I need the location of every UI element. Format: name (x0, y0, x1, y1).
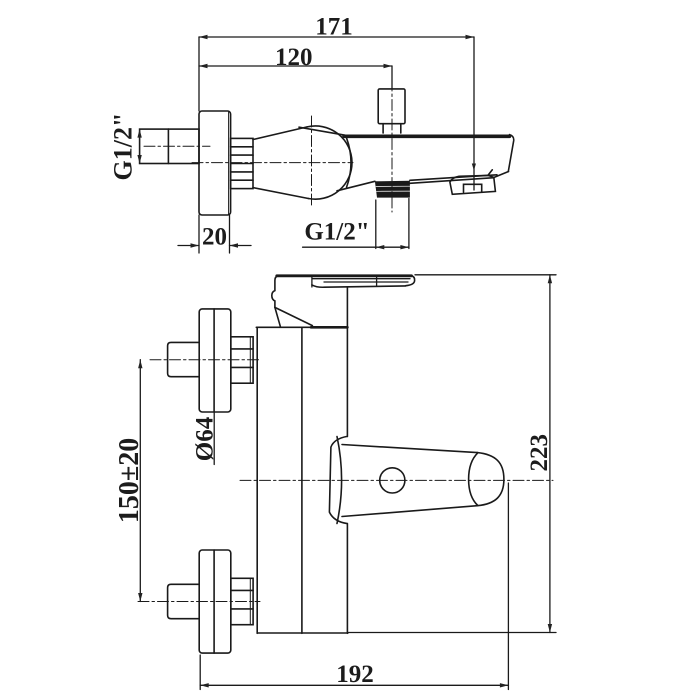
dimension 192 extensions (199, 655, 201, 690)
spout front left edge (272, 276, 278, 308)
upper mount flange (199, 309, 231, 412)
svg-text:192: 192 (336, 661, 374, 688)
Ø64 leader line (213, 412, 215, 465)
svg-text:G1/2": G1/2" (304, 219, 369, 246)
body right end cap (508, 135, 513, 172)
svg-text:Ø64: Ø64 (192, 416, 219, 461)
body bottom line (257, 632, 348, 634)
svg-text:150±20: 150±20 (114, 438, 145, 523)
thread dimension line + underline (303, 245, 409, 249)
small arrow on extension at spout underside (472, 164, 476, 171)
inlet pipe (side) (140, 129, 199, 163)
ball joint centerline vertical (311, 116, 313, 208)
knob centerline (391, 80, 393, 212)
lower mount centerline (138, 601, 260, 603)
extension line 171 right (spout end) (473, 37, 475, 190)
wall plate (side) (199, 111, 231, 215)
svg-text:223: 223 (526, 434, 553, 472)
body bottom edge right (410, 175, 497, 184)
handle base (329, 436, 347, 523)
223 bottom extension (348, 632, 556, 634)
diverter knob stem (383, 124, 401, 133)
cone to ball joint (253, 127, 308, 199)
aerator-body edge (488, 170, 492, 176)
svg-text:G1/2": G1/2" (109, 113, 138, 181)
lower mount pipe (168, 584, 200, 618)
dimension 150±20 (138, 360, 142, 602)
body top thick segment (311, 326, 347, 329)
dimension 223 (548, 275, 552, 633)
diverter knob (378, 89, 405, 124)
lever top edge (342, 445, 477, 453)
ball joint (egg) (307, 126, 352, 199)
neck diagonal (275, 307, 313, 325)
G1/2 diameter arrows (137, 129, 141, 163)
main axis centerline (192, 162, 353, 164)
svg-text:20: 20 (202, 224, 227, 251)
body column right edge upper (346, 287, 348, 437)
body top band thick (344, 135, 510, 139)
lower mount nut (231, 578, 253, 624)
body top edge thin (299, 127, 345, 135)
spout front top edge thick (277, 274, 412, 277)
dimension 20 line + arrows (178, 243, 251, 247)
inlet pipe centerline (144, 145, 210, 147)
lever bottom edge (342, 506, 477, 517)
neck steep edge (275, 307, 281, 326)
aerator block (450, 175, 496, 194)
inlet pipe divider (167, 129, 169, 163)
upper mount pipe (168, 342, 200, 376)
body top line (256, 326, 347, 328)
lower mount flange seam (213, 550, 215, 653)
ball-body junction arc (347, 138, 352, 188)
body bottom edge left (337, 181, 375, 191)
upper mount centerline (150, 359, 260, 361)
body column middle line (301, 327, 303, 633)
dimension 192 (200, 683, 508, 687)
lower mount flange (199, 550, 231, 653)
lever end cap inner arc (469, 453, 478, 506)
thread dimension extensions (375, 200, 377, 249)
handle centerline (240, 479, 553, 481)
dimension 20 extensions (198, 215, 200, 253)
wall plate inner edge (228, 112, 230, 215)
extension line left (wall plate) (198, 37, 200, 111)
threaded outlet (dark) (375, 181, 410, 198)
223 top extension (415, 274, 556, 276)
dimension 171 line (199, 35, 474, 39)
body column left edge (256, 327, 258, 633)
extension line 120 right (knob) (391, 66, 393, 89)
svg-text:120: 120 (275, 44, 313, 71)
body column right edge lower (346, 524, 348, 634)
spout front right tip (406, 276, 415, 286)
upper mount nut (231, 337, 253, 383)
svg-text:171: 171 (315, 14, 353, 41)
lever end cap outer (477, 453, 504, 506)
handle base dome arc (337, 437, 342, 524)
upper mount flange seam (213, 309, 215, 412)
dimension 120 line (199, 64, 392, 68)
ribbed escutcheon (231, 138, 253, 188)
spout front bottom edge (312, 285, 406, 287)
aerator notch (464, 184, 482, 192)
lever hole circle (380, 468, 405, 493)
spout inner lines (312, 279, 410, 282)
spout seams (312, 276, 377, 287)
body bottom right diagonal (494, 172, 509, 178)
